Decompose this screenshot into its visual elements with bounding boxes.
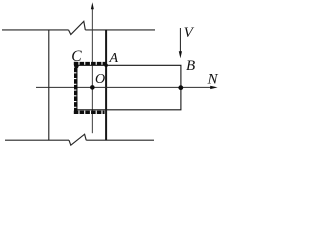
weld bead bottom run (hatched) [74, 111, 105, 114]
node B (dot) [178, 85, 183, 90]
column right flange line [105, 30, 107, 140]
svg-text:A: A [109, 51, 119, 66]
bottom boundary line with break [5, 134, 154, 145]
top boundary line with break [2, 21, 155, 34]
node C (weld corner dot) [74, 64, 78, 68]
bracket plate outline [77, 65, 181, 110]
vertical centroid axis with up arrow [91, 9, 93, 133]
svg-text:C: C [71, 48, 82, 65]
force V line with down arrow [179, 28, 181, 52]
weld bead left run (hatched) [74, 62, 77, 114]
node O centroid (dot) [90, 85, 95, 90]
weld bead top run (hatched) [74, 62, 106, 65]
column left flange line [48, 30, 50, 140]
svg-text:O: O [95, 72, 105, 87]
N axis horizontal line [36, 86, 211, 88]
svg-text:N: N [207, 72, 219, 88]
svg-text:B: B [186, 58, 195, 74]
node A (dot) [104, 64, 108, 68]
N axis arrowhead [210, 86, 217, 89]
